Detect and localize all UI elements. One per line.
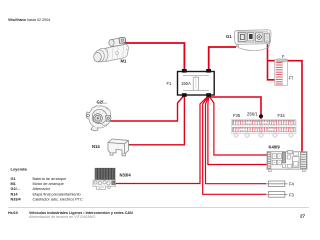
svg-text:N33/4: N33/4 (120, 172, 132, 177)
svg-text:Alternador: Alternador (33, 187, 51, 191)
svg-text:N33/4: N33/4 (11, 197, 22, 201)
svg-text:Motor de arranque: Motor de arranque (33, 182, 64, 186)
svg-text:N14: N14 (92, 144, 100, 149)
svg-text:F34: F34 (278, 113, 286, 118)
svg-text:F1: F1 (167, 81, 173, 86)
svg-text:27: 27 (300, 214, 306, 219)
svg-text:Hs/10: Hs/10 (8, 211, 18, 215)
svg-text:N14: N14 (11, 192, 19, 196)
svg-text:G2/...: G2/... (11, 187, 20, 191)
svg-text:G2/...: G2/... (97, 99, 107, 104)
svg-text:K40/9: K40/9 (269, 145, 281, 150)
svg-text:Calefactor adic. eléctrico PTC: Calefactor adic. eléctrico PTC (33, 197, 83, 201)
svg-text:Leyenda: Leyenda (11, 166, 28, 171)
svg-text:M1: M1 (11, 182, 16, 186)
svg-text:G1: G1 (11, 177, 16, 181)
svg-text:Etapa final precalentamiento: Etapa final precalentamiento (33, 192, 81, 196)
svg-text:Vito/Viano hasta 02.2004: Vito/Viano hasta 02.2004 (8, 18, 50, 22)
svg-text:F4: F4 (289, 182, 295, 187)
svg-text:Batería de arranque: Batería de arranque (33, 177, 67, 181)
svg-text:M1: M1 (121, 58, 127, 63)
svg-text:F3: F3 (289, 192, 295, 197)
svg-text:F7: F7 (289, 76, 295, 81)
svg-text:F35: F35 (233, 113, 241, 118)
svg-text:F: F (282, 54, 285, 59)
svg-text:150A: 150A (181, 81, 191, 86)
svg-text:G1: G1 (226, 34, 232, 39)
svg-text:Z66/1: Z66/1 (247, 112, 258, 117)
svg-text:Alimentación de tensión en VIT: Alimentación de tensión en VITO/VIANO (29, 215, 95, 219)
